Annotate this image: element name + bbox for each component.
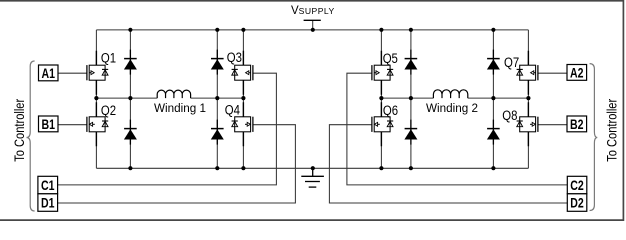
Vsupply bar (304, 19, 321, 21)
node A2 box (567, 65, 587, 81)
svg-text:Q6: Q6 (383, 103, 398, 118)
svg-text:D1: D1 (41, 195, 55, 211)
svg-text:C1: C1 (41, 177, 55, 193)
svg-text:VSUPPLY: VSUPPLY (291, 5, 335, 17)
svg-text:C2: C2 (570, 177, 584, 193)
wire diode column 3 (410, 30, 412, 168)
junction ground rail / Q4 source (241, 166, 245, 170)
node B2 box (567, 116, 587, 132)
svg-text:Q7: Q7 (504, 55, 519, 70)
junction ground rail / ground tap (311, 166, 315, 170)
node D1 box (38, 194, 58, 212)
svg-text:D2: D2 (570, 195, 584, 211)
svg-text:Q2: Q2 (101, 103, 116, 118)
wire B1 to Q2 gate (58, 124, 87, 126)
junction node winding2 left / diode column 3 (409, 96, 413, 100)
wire top supply rail (96, 29, 528, 31)
inductor Winding 1 (157, 90, 190, 98)
svg-text:B1: B1 (41, 116, 55, 132)
junction top rail / Q3 drain (241, 28, 245, 32)
svg-text:B2: B2 (570, 116, 584, 132)
junction node winding1 left / diode column 1 (128, 96, 132, 100)
wire Q3 gate to C1 (58, 73, 277, 185)
transistor Q1 (87, 51, 108, 95)
junction top rail / diode column 3 (409, 28, 413, 32)
junction ground rail / diode column 2 (215, 166, 219, 170)
svg-text:To Controller: To Controller (604, 99, 620, 162)
wire diode column 2 (216, 30, 218, 168)
wire A1 to Q1 gate (58, 72, 87, 74)
wire bridge2 right leg (527, 30, 529, 168)
junction top rail / diode column 2 (215, 28, 219, 32)
Vsupply tap wire (312, 20, 314, 30)
ground symbol (301, 168, 324, 187)
left brace (27, 61, 35, 211)
node C2 box (567, 176, 587, 194)
transistor Q6 (372, 102, 393, 146)
svg-text:A2: A2 (570, 65, 584, 81)
junction ground rail / diode column 3 (409, 166, 413, 170)
junction ground rail / Q6 source (379, 166, 383, 170)
wire bridge1 right leg (242, 30, 244, 168)
junction node winding2 left / Q5-Q6 (379, 96, 383, 100)
diode D-col4 top (487, 50, 500, 75)
diode D-col3 bottom (404, 120, 417, 145)
wire Q5 gate to C2 (347, 73, 567, 185)
wire bridge2 left leg (380, 30, 382, 168)
wire B2 to Q8 gate (538, 124, 567, 126)
diode D-col1 top (124, 50, 137, 75)
junction top rail / diode column 4 (491, 28, 495, 32)
junction node winding2 right / diode column 4 (491, 96, 495, 100)
transistor Q2 (87, 102, 108, 146)
inductor Winding 2 (433, 90, 467, 98)
transistor Q8 (517, 102, 538, 146)
node C1 box (38, 176, 58, 194)
transistor Q3 (232, 51, 253, 95)
svg-text:Winding 2: Winding 2 (426, 103, 478, 115)
wire diode column 1 (129, 30, 131, 168)
junction top rail / diode column 1 (128, 28, 132, 32)
junction node winding2 right / Q7-Q8 (526, 96, 530, 100)
svg-text:Q3: Q3 (227, 50, 242, 65)
wire diode column 4 (492, 30, 494, 168)
node D2 box (567, 194, 587, 212)
junction top rail / Vsupply tap (311, 28, 315, 32)
wire winding2 node left (381, 97, 433, 99)
wire Q4 gate to D1 (58, 125, 296, 203)
wire bottom ground rail (96, 167, 528, 169)
svg-text:To Controller: To Controller (11, 99, 27, 162)
diode D-col1 bottom (124, 120, 137, 145)
svg-text:A1: A1 (41, 65, 55, 81)
transistor Q7 (517, 51, 538, 95)
right brace (590, 64, 598, 211)
svg-text:Q8: Q8 (502, 108, 517, 123)
svg-text:Winding 1: Winding 1 (154, 103, 206, 115)
wire winding1 node right (191, 97, 244, 99)
diode D-col2 bottom (211, 120, 224, 145)
svg-text:Q5: Q5 (383, 51, 398, 66)
transistor Q4 (232, 102, 253, 146)
junction node winding1 right / Q3-Q4 (241, 96, 245, 100)
wire winding1 node left (96, 97, 157, 99)
diode D-col4 bottom (487, 120, 500, 145)
node A1 box (39, 65, 59, 81)
wire bridge1 left leg (95, 30, 97, 168)
transistor Q5 (372, 51, 393, 95)
wire A2 to Q7 gate (538, 72, 567, 74)
node B1 box (39, 116, 59, 132)
diode D-col2 top (211, 50, 224, 75)
junction node winding1 left / Q1-Q2 (94, 96, 98, 100)
junction top rail / Q5 drain (379, 28, 383, 32)
junction ground rail / diode column 4 (491, 166, 495, 170)
svg-text:Q1: Q1 (101, 50, 116, 65)
wire Q6 gate to D2 (329, 125, 567, 203)
junction node winding1 right / diode column 2 (215, 96, 219, 100)
diode D-col3 top (404, 50, 417, 75)
wire winding2 node right (468, 97, 529, 99)
svg-text:Q4: Q4 (225, 103, 241, 118)
junction ground rail / diode column 1 (128, 166, 132, 170)
